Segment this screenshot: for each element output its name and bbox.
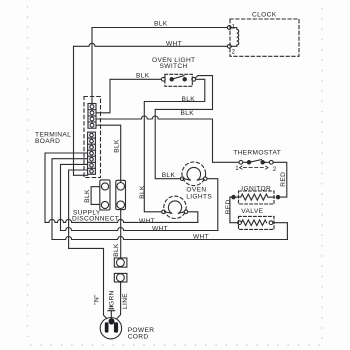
svg-text:"N": "N" — [93, 294, 100, 305]
svg-text:BOARD: BOARD — [35, 138, 60, 145]
svg-text:IGNITOR: IGNITOR — [241, 185, 271, 192]
svg-text:WHT: WHT — [193, 234, 209, 241]
svg-text:BLK: BLK — [113, 139, 120, 153]
svg-text:CORD: CORD — [128, 334, 149, 341]
svg-text:GRN: GRN — [108, 290, 115, 306]
svg-text:BLK: BLK — [113, 243, 120, 257]
svg-text:1: 1 — [232, 24, 236, 31]
svg-text:BLK: BLK — [154, 21, 168, 28]
svg-text:BLK: BLK — [84, 189, 91, 203]
svg-text:DISCONNECT: DISCONNECT — [72, 215, 119, 222]
svg-text:BLK: BLK — [136, 73, 150, 80]
svg-text:BLK: BLK — [139, 185, 146, 199]
svg-text:BLK: BLK — [162, 172, 176, 179]
svg-text:SWITCH: SWITCH — [160, 63, 188, 70]
svg-text:CLOCK: CLOCK — [252, 12, 277, 19]
svg-text:WHT: WHT — [166, 40, 182, 47]
svg-text:VALVE: VALVE — [241, 208, 263, 215]
svg-text:LINE: LINE — [122, 293, 129, 309]
svg-text:2: 2 — [232, 48, 236, 55]
svg-text:BLK: BLK — [182, 96, 196, 103]
svg-text:2: 2 — [273, 166, 277, 173]
svg-text:WHT: WHT — [152, 225, 168, 232]
svg-text:WHT: WHT — [139, 218, 155, 225]
svg-text:RED: RED — [225, 199, 232, 214]
svg-text:1: 1 — [235, 165, 239, 172]
svg-text:THERMOSTAT: THERMOSTAT — [233, 149, 281, 156]
svg-text:LIGHTS: LIGHTS — [186, 193, 212, 200]
svg-text:BLK: BLK — [181, 110, 195, 117]
svg-text:RED: RED — [280, 172, 287, 187]
